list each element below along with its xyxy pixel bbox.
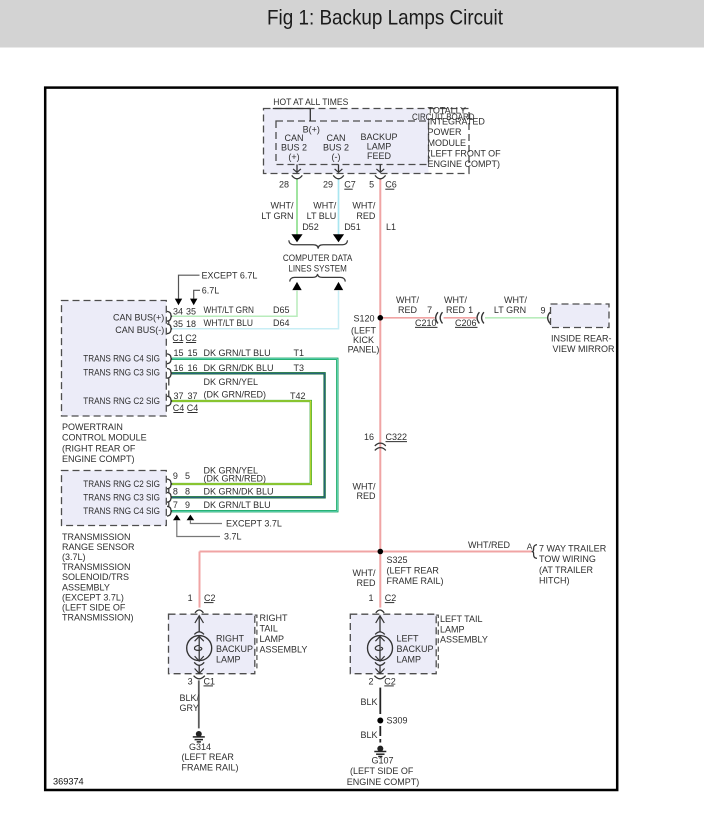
svg-text:LT GRN: LT GRN xyxy=(494,305,526,315)
svg-text:T1: T1 xyxy=(293,348,304,358)
svg-text:VIEW MIRROR: VIEW MIRROR xyxy=(553,344,615,354)
svg-text:C1: C1 xyxy=(204,676,216,686)
svg-text:(DK GRN/RED): (DK GRN/RED) xyxy=(204,474,267,484)
svg-text:8: 8 xyxy=(185,486,190,496)
svg-text:G314: G314 xyxy=(189,742,211,752)
svg-text:WHT/RED: WHT/RED xyxy=(468,540,510,550)
svg-text:INSIDE REAR-: INSIDE REAR- xyxy=(551,334,612,344)
svg-text:DK GRN/LT BLU: DK GRN/LT BLU xyxy=(204,348,271,358)
svg-text:A: A xyxy=(527,542,533,552)
svg-text:LT BLU: LT BLU xyxy=(307,211,337,221)
svg-text:28: 28 xyxy=(279,180,289,190)
svg-text:ASSEMBLY: ASSEMBLY xyxy=(260,645,308,655)
svg-text:L1: L1 xyxy=(386,222,396,232)
svg-text:D64: D64 xyxy=(273,318,290,328)
svg-text:(EXCEPT 3.7L): (EXCEPT 3.7L) xyxy=(62,592,124,602)
svg-text:POWERTRAIN: POWERTRAIN xyxy=(62,422,123,432)
svg-text:CAN: CAN xyxy=(326,133,345,143)
svg-text:DK GRN/LT BLU: DK GRN/LT BLU xyxy=(204,500,271,510)
svg-text:(LEFT REAR: (LEFT REAR xyxy=(182,752,235,762)
svg-text:9: 9 xyxy=(173,471,178,481)
svg-text:C322: C322 xyxy=(386,432,408,442)
svg-text:WHT/: WHT/ xyxy=(504,295,527,305)
svg-text:C2: C2 xyxy=(384,676,396,686)
svg-text:LAMP: LAMP xyxy=(397,655,422,665)
svg-text:(+): (+) xyxy=(288,152,299,162)
svg-text:TRANS RNG C4 SIG: TRANS RNG C4 SIG xyxy=(83,506,160,516)
svg-text:C6: C6 xyxy=(385,180,397,190)
svg-text:HITCH): HITCH) xyxy=(539,576,570,586)
svg-text:RIGHT: RIGHT xyxy=(216,634,245,644)
svg-text:WHT/: WHT/ xyxy=(444,295,467,305)
svg-text:TRANS RNG C4 SIG: TRANS RNG C4 SIG xyxy=(83,354,160,364)
svg-text:C206: C206 xyxy=(455,318,477,328)
svg-text:B(+): B(+) xyxy=(303,124,320,134)
svg-text:LINES SYSTEM: LINES SYSTEM xyxy=(288,264,347,274)
svg-text:15: 15 xyxy=(173,348,183,358)
svg-text:1: 1 xyxy=(368,593,373,603)
svg-text:KICK: KICK xyxy=(353,335,374,345)
svg-text:RED: RED xyxy=(356,211,376,221)
svg-text:TOW WIRING: TOW WIRING xyxy=(539,554,596,564)
svg-text:LEFT TAIL: LEFT TAIL xyxy=(440,614,483,624)
svg-text:C4: C4 xyxy=(173,403,185,413)
svg-text:TRANS RNG C2 SIG: TRANS RNG C2 SIG xyxy=(83,396,160,406)
svg-text:35: 35 xyxy=(186,306,196,316)
svg-text:(LEFT SIDE OF: (LEFT SIDE OF xyxy=(350,766,414,776)
svg-text:3.7L: 3.7L xyxy=(224,532,242,542)
svg-text:ENGINE COMPT): ENGINE COMPT) xyxy=(62,454,135,464)
svg-text:37: 37 xyxy=(187,391,197,401)
svg-text:WHT/: WHT/ xyxy=(271,201,294,211)
svg-text:CAN: CAN xyxy=(284,133,303,143)
svg-text:TRANS RNG C3 SIG: TRANS RNG C3 SIG xyxy=(83,492,160,502)
svg-text:ASSEMBLY: ASSEMBLY xyxy=(440,635,488,645)
svg-text:C2: C2 xyxy=(385,593,397,603)
svg-text:D52: D52 xyxy=(302,222,319,232)
svg-text:369374: 369374 xyxy=(53,776,84,786)
svg-text:RED: RED xyxy=(356,578,376,588)
svg-text:TAIL: TAIL xyxy=(260,624,278,634)
svg-text:S120: S120 xyxy=(353,313,374,323)
svg-text:FEED: FEED xyxy=(367,151,392,161)
svg-text:C7: C7 xyxy=(344,180,356,190)
svg-text:16: 16 xyxy=(364,432,374,442)
svg-text:(LEFT: (LEFT xyxy=(351,325,377,335)
svg-text:ASSEMBLY: ASSEMBLY xyxy=(62,582,110,592)
svg-text:WHT/LT GRN: WHT/LT GRN xyxy=(204,305,255,315)
svg-text:Fig 1: Backup Lamps Circuit: Fig 1: Backup Lamps Circuit xyxy=(267,6,503,29)
svg-text:WHT/: WHT/ xyxy=(353,568,376,578)
svg-text:WHT/: WHT/ xyxy=(352,201,375,211)
svg-text:C1: C1 xyxy=(172,333,184,343)
svg-text:6.7L: 6.7L xyxy=(202,285,220,295)
svg-text:WHT/: WHT/ xyxy=(313,201,336,211)
svg-text:3: 3 xyxy=(188,676,193,686)
svg-text:ENGINE COMPT): ENGINE COMPT) xyxy=(347,777,420,787)
svg-text:7: 7 xyxy=(173,500,178,510)
svg-text:37: 37 xyxy=(173,391,183,401)
svg-text:WHT/: WHT/ xyxy=(353,481,376,491)
svg-text:C4: C4 xyxy=(187,403,199,413)
svg-text:FRAME RAIL): FRAME RAIL) xyxy=(182,762,239,772)
svg-text:DK GRN/DK BLU: DK GRN/DK BLU xyxy=(204,363,274,373)
svg-text:DK GRN/DK BLU: DK GRN/DK BLU xyxy=(204,486,274,496)
svg-text:RANGE SENSOR: RANGE SENSOR xyxy=(62,542,135,552)
svg-text:LEFT: LEFT xyxy=(397,634,420,644)
svg-text:RED: RED xyxy=(398,305,418,315)
svg-text:9: 9 xyxy=(540,305,545,315)
svg-text:LAMP: LAMP xyxy=(367,142,392,152)
svg-text:FRAME RAIL): FRAME RAIL) xyxy=(387,576,444,586)
svg-text:18: 18 xyxy=(186,319,196,329)
svg-text:WHT/LT BLU: WHT/LT BLU xyxy=(204,318,254,328)
svg-text:MODULE: MODULE xyxy=(428,138,467,148)
svg-text:D51: D51 xyxy=(344,222,361,232)
svg-text:BLK/: BLK/ xyxy=(180,693,200,703)
svg-text:C210: C210 xyxy=(415,318,437,328)
svg-text:RED: RED xyxy=(356,491,376,501)
svg-text:BACKUP: BACKUP xyxy=(216,644,253,654)
svg-text:ENGINE COMPT): ENGINE COMPT) xyxy=(428,159,501,169)
svg-text:D65: D65 xyxy=(273,305,290,315)
svg-text:(3.7L): (3.7L) xyxy=(62,552,86,562)
svg-text:LAMP: LAMP xyxy=(260,634,285,644)
svg-text:C2: C2 xyxy=(185,333,197,343)
svg-text:(AT TRAILER: (AT TRAILER xyxy=(539,565,594,575)
svg-text:16: 16 xyxy=(173,363,183,373)
svg-text:COMPUTER DATA: COMPUTER DATA xyxy=(283,253,353,263)
svg-text:BUS 2: BUS 2 xyxy=(323,143,349,153)
svg-text:T3: T3 xyxy=(293,363,304,373)
svg-text:INTEGRATED: INTEGRATED xyxy=(428,116,486,126)
svg-text:PANEL): PANEL) xyxy=(348,345,380,355)
svg-text:BUS 2: BUS 2 xyxy=(281,143,307,153)
svg-text:5: 5 xyxy=(185,471,190,481)
svg-text:EXCEPT 6.7L: EXCEPT 6.7L xyxy=(202,270,258,280)
svg-text:LAMP: LAMP xyxy=(440,624,465,634)
svg-text:7 WAY TRAILER: 7 WAY TRAILER xyxy=(539,543,607,553)
svg-text:(LEFT SIDE OF: (LEFT SIDE OF xyxy=(62,602,126,612)
svg-text:CAN BUS(+): CAN BUS(+) xyxy=(113,312,164,322)
svg-text:(RIGHT REAR OF: (RIGHT REAR OF xyxy=(62,443,136,453)
svg-text:G107: G107 xyxy=(372,756,394,766)
svg-text:WHT/: WHT/ xyxy=(396,295,419,305)
svg-text:S325: S325 xyxy=(387,555,408,565)
svg-text:DK GRN/YEL: DK GRN/YEL xyxy=(204,377,259,387)
svg-text:15: 15 xyxy=(187,348,197,358)
svg-text:T42: T42 xyxy=(290,391,306,401)
svg-text:(-): (-) xyxy=(332,152,341,162)
svg-text:34: 34 xyxy=(173,306,183,316)
svg-text:BLK: BLK xyxy=(361,730,378,740)
svg-text:HOT AT ALL TIMES: HOT AT ALL TIMES xyxy=(273,97,348,107)
svg-text:(LEFT FRONT OF: (LEFT FRONT OF xyxy=(428,149,502,159)
svg-text:TRANS RNG C3 SIG: TRANS RNG C3 SIG xyxy=(83,367,160,377)
svg-text:LT GRN: LT GRN xyxy=(261,211,293,221)
svg-text:CONTROL MODULE: CONTROL MODULE xyxy=(62,433,147,443)
svg-text:S309: S309 xyxy=(387,716,408,726)
svg-text:1: 1 xyxy=(468,305,473,315)
svg-text:TRANSMISSION: TRANSMISSION xyxy=(62,562,131,572)
svg-text:9: 9 xyxy=(185,500,190,510)
svg-text:TRANSMISSION: TRANSMISSION xyxy=(62,532,131,542)
svg-text:(LEFT REAR: (LEFT REAR xyxy=(387,566,440,576)
svg-text:29: 29 xyxy=(323,180,333,190)
svg-text:35: 35 xyxy=(173,319,183,329)
svg-text:LAMP: LAMP xyxy=(216,655,241,665)
svg-text:(DK GRN/RED): (DK GRN/RED) xyxy=(204,389,267,399)
svg-text:1: 1 xyxy=(188,593,193,603)
svg-text:POWER: POWER xyxy=(428,127,463,137)
svg-text:8: 8 xyxy=(173,486,178,496)
svg-text:RIGHT: RIGHT xyxy=(260,613,289,623)
svg-text:C2: C2 xyxy=(204,593,216,603)
svg-text:TRANSMISSION): TRANSMISSION) xyxy=(62,612,134,622)
svg-text:2: 2 xyxy=(368,676,373,686)
svg-text:TRANS RNG C2 SIG: TRANS RNG C2 SIG xyxy=(83,479,160,489)
svg-text:GRY: GRY xyxy=(180,703,199,713)
svg-text:BACKUP: BACKUP xyxy=(360,132,397,142)
svg-text:BACKUP: BACKUP xyxy=(397,644,434,654)
svg-text:BLK: BLK xyxy=(361,697,378,707)
svg-text:5: 5 xyxy=(369,180,374,190)
svg-text:CAN BUS(-): CAN BUS(-) xyxy=(115,325,164,335)
svg-text:16: 16 xyxy=(187,363,197,373)
svg-text:TOTALLY: TOTALLY xyxy=(428,106,467,116)
svg-text:7: 7 xyxy=(427,305,432,315)
svg-text:EXCEPT 3.7L: EXCEPT 3.7L xyxy=(226,518,282,528)
svg-text:RED: RED xyxy=(446,305,466,315)
svg-text:SOLENOID/TRS: SOLENOID/TRS xyxy=(62,572,129,582)
